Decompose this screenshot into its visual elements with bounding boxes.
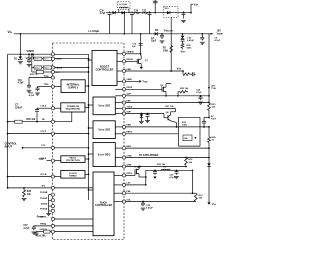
svg-text:R22 10k: R22 10k bbox=[180, 88, 189, 90]
pin NTC (left 72) bbox=[51, 70, 60, 74]
capacitor C36 bbox=[130, 11, 140, 34]
resistor R13b bbox=[208, 103, 217, 118]
diode D8 bbox=[139, 113, 144, 124]
svg-text:SUPPLY: SUPPLY bbox=[68, 85, 78, 89]
pin VMAIN (right) bbox=[122, 51, 133, 56]
wire SUP net bbox=[126, 113, 165, 115]
svg-text:TVDD: TVDD bbox=[142, 81, 148, 83]
transistor Q1 bbox=[126, 55, 149, 65]
svg-text:EN: EN bbox=[42, 185, 45, 187]
svg-text:100k: 100k bbox=[163, 50, 169, 52]
svg-text:C32: C32 bbox=[142, 11, 147, 13]
svg-text:D2: D2 bbox=[155, 28, 159, 32]
svg-text:TVDD: TVDD bbox=[126, 106, 132, 108]
svg-text:PVSSB: PVSSB bbox=[40, 192, 48, 194]
wire boost node riser bbox=[123, 13, 125, 34]
wire buck LX node bbox=[126, 175, 147, 186]
pin FBP2 (right) bbox=[122, 132, 132, 136]
pin DRVL (right) bbox=[122, 173, 133, 177]
svg-text:GRN: GRN bbox=[126, 164, 131, 166]
svg-text:VMAIN: VMAIN bbox=[217, 32, 224, 35]
wire CTL internal bbox=[54, 147, 89, 149]
svg-text:0.47µF: 0.47µF bbox=[187, 39, 195, 42]
resistor R25 bbox=[208, 137, 217, 143]
resistor R30 bbox=[7, 119, 52, 123]
wire ldo2 stubs bbox=[115, 127, 122, 134]
svg-text:VGH: VGH bbox=[177, 69, 182, 71]
transistor Q4 bbox=[164, 111, 171, 121]
capacitor C15 bbox=[25, 53, 32, 66]
pin VINTH (left 58.7) bbox=[51, 57, 62, 61]
svg-text:TO GATE DRIVER: TO GATE DRIVER bbox=[139, 154, 159, 157]
capacitor C9 bbox=[200, 33, 221, 44]
wire clock stub bbox=[85, 173, 89, 175]
wire VIN pin internal bbox=[54, 54, 88, 60]
svg-text:220nF: 220nF bbox=[15, 106, 23, 109]
capacitor C22 top bbox=[153, 0, 158, 13]
svg-text:ILED.A: ILED.A bbox=[40, 228, 48, 231]
wire VGH fb riser bbox=[170, 18, 172, 72]
pin FBN (right) bbox=[122, 125, 131, 129]
capacitor C37 bbox=[23, 225, 51, 234]
label VINFB bbox=[27, 50, 35, 53]
diode D6 bbox=[122, 11, 125, 14]
wire VCCA row bbox=[7, 176, 52, 178]
wire boost out stubs bbox=[117, 54, 123, 82]
svg-text:R19 0: R19 0 bbox=[35, 68, 40, 70]
svg-text:R30 10k: R30 10k bbox=[27, 119, 36, 121]
capacitor C38 bbox=[141, 202, 154, 211]
capacitor C32 bbox=[142, 11, 152, 34]
wire VMAIN riser bbox=[140, 33, 142, 55]
svg-text:GDP: GDP bbox=[126, 94, 131, 96]
svg-text:SEQUENCING: SEQUENCING bbox=[66, 108, 81, 110]
block negative LDO bbox=[93, 121, 115, 139]
pin VCC3 (left 133.6) bbox=[40, 131, 54, 135]
svg-text:C37: C37 bbox=[23, 225, 28, 227]
wire gate driver net bbox=[126, 154, 210, 158]
inductor L1 label bbox=[89, 29, 100, 33]
wire Q4 emitter bbox=[171, 121, 177, 127]
wire ldo1 stubs bbox=[115, 89, 122, 113]
svg-text:C10: C10 bbox=[18, 80, 23, 82]
wire rail mid bbox=[208, 127, 210, 137]
wire PVSS bus bbox=[46, 195, 51, 216]
svg-text:VREFL: VREFL bbox=[40, 216, 48, 218]
label AVDD tap bbox=[208, 115, 217, 121]
pin DRVP (right) bbox=[122, 87, 133, 91]
pin VINLM (left 67.5) bbox=[51, 66, 62, 70]
wire AVDD out row bbox=[166, 93, 210, 97]
svg-text:VCCA: VCCA bbox=[40, 173, 47, 176]
pin ILED.A (left 231.6) bbox=[40, 228, 55, 233]
junction boost node bbox=[123, 12, 125, 35]
capacitor C30 bbox=[100, 11, 112, 34]
block VGOFF regulator bbox=[93, 143, 115, 167]
wire PA to poseq bbox=[54, 112, 71, 122]
wire EN to buck bbox=[54, 187, 93, 189]
wire VOL net bbox=[126, 201, 196, 203]
svg-text:INPUT: INPUT bbox=[5, 146, 13, 149]
wire FBB net bbox=[126, 70, 184, 72]
wire ldo1 stub bbox=[88, 104, 93, 106]
pin FBP (right) bbox=[122, 100, 131, 104]
wire buck stubs bbox=[114, 175, 123, 201]
wire VCC3 row bbox=[7, 133, 52, 135]
svg-text:C36: C36 bbox=[134, 11, 139, 13]
wire FBN net bbox=[126, 126, 210, 128]
wire VDD to supply bbox=[54, 86, 61, 88]
svg-text:4.7µF: 4.7µF bbox=[142, 12, 149, 15]
block power-on sequencing bbox=[61, 103, 85, 112]
capacitor C34 bbox=[29, 87, 40, 97]
pin FBB (right) bbox=[122, 69, 131, 73]
svg-text:HELB: HELB bbox=[40, 158, 46, 160]
svg-text:4.7µF: 4.7µF bbox=[18, 82, 25, 85]
pin SUP (right) bbox=[122, 111, 131, 115]
wire HELB to fault bbox=[54, 160, 60, 162]
pin GRN (right) bbox=[122, 164, 131, 168]
capacitor C35 bbox=[169, 169, 179, 179]
wire nldo stubs bbox=[115, 148, 122, 166]
label VGL arrow bbox=[207, 202, 216, 206]
pin VOL (right) bbox=[122, 199, 131, 203]
zener diode D1 bbox=[14, 53, 23, 64]
label TVDD to HELB bbox=[39, 158, 52, 161]
pin TVDD (right) bbox=[122, 106, 132, 110]
wire GDP link bbox=[126, 95, 167, 97]
svg-text:R21 0: R21 0 bbox=[44, 68, 49, 70]
wire VIN sense drop bbox=[19, 34, 21, 54]
svg-text:4.7µF: 4.7µF bbox=[25, 57, 32, 60]
svg-text:R33: R33 bbox=[27, 191, 32, 193]
resistor R22 bbox=[177, 88, 189, 96]
pin FREQ (left 225.9) bbox=[40, 223, 54, 227]
junction pump mid bbox=[149, 12, 156, 14]
wire NEG net bbox=[126, 147, 210, 149]
capacitor C10 bbox=[18, 78, 32, 93]
wire GRN net bbox=[126, 164, 187, 167]
IC package boundary (dashed) bbox=[53, 43, 125, 240]
wire boost stub bbox=[88, 59, 92, 61]
svg-text:TIMING: TIMING bbox=[69, 175, 77, 177]
pin VCCA (left 176.5) bbox=[40, 173, 54, 178]
wire Q2 drain bbox=[166, 84, 171, 86]
wire Q3 drain riser bbox=[138, 166, 140, 168]
svg-text:R16 0: R16 0 bbox=[35, 59, 40, 61]
pin CTL (left 147.8) bbox=[41, 145, 54, 149]
pin PA (left 121.7) bbox=[42, 118, 55, 123]
pin VINB (right) bbox=[122, 79, 132, 83]
wire CTL row bbox=[22, 147, 52, 150]
node VIN label bbox=[8, 30, 13, 34]
svg-text:FBN: FBN bbox=[126, 125, 131, 127]
wire VIN top rail bbox=[14, 33, 213, 35]
wire VIN sense rail bbox=[8, 53, 52, 55]
label RRSET bbox=[37, 217, 44, 219]
wire right rail top bbox=[208, 34, 210, 103]
pin PBL (right) bbox=[122, 191, 131, 195]
label R27 bbox=[165, 106, 174, 108]
svg-text:VOL: VOL bbox=[126, 199, 131, 201]
svg-text:L1 6.8µH: L1 6.8µH bbox=[89, 29, 100, 33]
resistor R6 bbox=[182, 70, 191, 75]
pin PVSSA (left 210.9) bbox=[40, 208, 55, 213]
label VDD pin wire bbox=[38, 83, 52, 86]
svg-text:L2 10µH: L2 10µH bbox=[119, 4, 127, 6]
svg-text:FREQ: FREQ bbox=[40, 223, 46, 225]
svg-text:DRVB: DRVB bbox=[126, 59, 133, 61]
wire TVDD2 net bbox=[126, 108, 176, 110]
svg-text:TOUT: TOUT bbox=[211, 119, 217, 121]
inductor L3 bbox=[161, 167, 170, 171]
diode D5 bbox=[113, 11, 116, 14]
capacitor C7 bbox=[15, 104, 51, 123]
resistor R12b bbox=[185, 158, 194, 166]
capacitor C16 bbox=[181, 37, 195, 43]
pin DRVB (right) bbox=[122, 59, 133, 63]
capacitor C18 bbox=[191, 72, 196, 76]
inductor L2 (optional, dashed) bbox=[118, 2, 130, 13]
diode D7 bbox=[181, 33, 184, 39]
label TVDD pin wire bbox=[29, 75, 51, 78]
wire ldo2 stub bbox=[88, 127, 93, 129]
pin P (left 54.3) bbox=[51, 53, 54, 56]
svg-text:PVSSP: PVSSP bbox=[40, 198, 48, 200]
wire Q4 collector bbox=[171, 112, 176, 115]
svg-text:4.7µF: 4.7µF bbox=[134, 12, 141, 15]
junction VIN rail bbox=[20, 33, 22, 35]
resistor R24 bbox=[181, 43, 192, 49]
label CONTROL INPUT bbox=[5, 143, 18, 149]
wire VINLM internal bbox=[54, 67, 89, 73]
wire VCCA to clock bbox=[54, 176, 60, 178]
wire Q1 source arrow bbox=[140, 65, 143, 69]
block fault protection bbox=[61, 156, 85, 163]
svg-text:VCC3: VCC3 bbox=[40, 131, 47, 133]
svg-text:4.7µF: 4.7µF bbox=[196, 91, 202, 94]
svg-text:4.7µF: 4.7µF bbox=[214, 39, 220, 42]
label VTAP 25V bbox=[208, 86, 216, 91]
wire fault stub bbox=[85, 158, 89, 160]
svg-text:4.7µF: 4.7µF bbox=[100, 12, 107, 15]
svg-text:CONTROLLER: CONTROLLER bbox=[95, 204, 112, 207]
resistor R18 bbox=[34, 230, 52, 238]
pin EN (left 187.9) bbox=[42, 185, 55, 189]
svg-text:R18 28k: R18 28k bbox=[36, 235, 46, 238]
svg-text:NEG: NEG bbox=[126, 146, 131, 148]
svg-text:0.47µF: 0.47µF bbox=[146, 206, 154, 209]
svg-text:VMAIN: VMAIN bbox=[126, 51, 133, 54]
svg-text:PBL: PBL bbox=[126, 191, 131, 193]
svg-text:VGH: VGH bbox=[181, 50, 186, 53]
node VMAIN output bbox=[210, 30, 223, 36]
svg-text:FBB: FBB bbox=[126, 69, 131, 71]
svg-text:22µF: 22µF bbox=[151, 41, 157, 43]
capacitor C24 bbox=[196, 88, 203, 104]
svg-text:FBP: FBP bbox=[126, 100, 131, 102]
svg-text:FBP2: FBP2 bbox=[126, 132, 132, 134]
capacitor C4 bbox=[202, 118, 209, 128]
wire VINTH row bbox=[32, 53, 34, 58]
label R12 bbox=[182, 122, 188, 127]
resistor R17 bbox=[42, 57, 52, 61]
svg-text:DRVP: DRVP bbox=[126, 87, 133, 89]
svg-text:100k: 100k bbox=[182, 124, 188, 126]
wire VINLM row bbox=[31, 53, 33, 67]
svg-text:PVSSA: PVSSA bbox=[40, 208, 48, 211]
wire internal bus bbox=[88, 60, 90, 200]
svg-text:500k: 500k bbox=[187, 47, 193, 49]
svg-text:AGND: AGND bbox=[41, 203, 48, 206]
svg-text:4.7µF: 4.7µF bbox=[29, 94, 35, 97]
capacitor C13 on riser bbox=[132, 44, 142, 49]
block buck controller U2 bbox=[93, 172, 114, 236]
svg-text:VINFB: VINFB bbox=[27, 50, 35, 53]
wire PBL net bbox=[126, 170, 194, 194]
wire supply stub bbox=[85, 85, 89, 87]
wire poseq stub bbox=[85, 107, 89, 109]
wire rail low bbox=[208, 143, 210, 164]
svg-text:4.7µF: 4.7µF bbox=[169, 176, 175, 179]
capacitor C2 bbox=[151, 33, 164, 43]
wire COL2 to poseq bbox=[54, 107, 60, 109]
wire left bias rail bbox=[7, 54, 9, 188]
pin P (left 77.5) bbox=[51, 76, 54, 79]
wire VMAIN pin bbox=[126, 53, 142, 55]
pin PVSSP (left 200.3) bbox=[40, 198, 54, 202]
svg-text:CHW: CHW bbox=[126, 155, 132, 157]
wire VCC3 internal bbox=[54, 133, 89, 135]
svg-text:VDD: VDD bbox=[44, 83, 49, 86]
wire EN row bbox=[7, 187, 52, 189]
diode D2 boost rectifier bbox=[155, 28, 159, 36]
svg-text:CTL: CTL bbox=[41, 145, 46, 147]
resistor R5 bbox=[163, 46, 173, 53]
wire nldo stub bbox=[88, 153, 93, 155]
pin P (left 86.6) bbox=[51, 85, 54, 88]
resistor R13 bbox=[193, 193, 204, 201]
label VGH2 bbox=[181, 48, 186, 53]
capacitor C39 bbox=[145, 113, 150, 123]
svg-text:PROTECTION: PROTECTION bbox=[66, 160, 80, 162]
wire buck output row bbox=[145, 169, 193, 177]
wire FBP2 net bbox=[126, 133, 179, 135]
block internal supply bbox=[61, 80, 85, 93]
svg-text:SUP: SUP bbox=[126, 111, 131, 113]
pin LX2 (right) bbox=[122, 183, 131, 187]
wire VREF to buck bbox=[54, 219, 93, 226]
diode D9 bbox=[207, 163, 210, 202]
wire VGH riser bbox=[190, 4, 193, 13]
wire FBP net bbox=[126, 102, 210, 104]
pin CHW (right) bbox=[122, 155, 132, 159]
label VGH fb bbox=[177, 69, 182, 71]
pin HELB (left 160.6) bbox=[40, 158, 54, 162]
svg-text:DRVL: DRVL bbox=[126, 173, 133, 175]
svg-text:CONTROLLER: CONTROLLER bbox=[96, 67, 114, 71]
resistor R14 bbox=[183, 135, 196, 141]
wire charge-pump rail bbox=[106, 12, 191, 14]
svg-text:C30: C30 bbox=[100, 11, 105, 13]
resistor mesh box bbox=[178, 117, 200, 146]
pin PVSSB (left 194.6) bbox=[40, 192, 55, 196]
resistor R16 bbox=[33, 57, 42, 61]
block boost controller U1 bbox=[92, 50, 117, 85]
capacitor C33 bbox=[181, 11, 186, 22]
thermistor row bbox=[30, 68, 52, 76]
block clock generator bbox=[61, 170, 85, 178]
svg-text:4.7µF: 4.7µF bbox=[23, 227, 30, 230]
pin NEG (right) bbox=[122, 146, 131, 150]
diode D10 (optional, dashed box) bbox=[164, 6, 178, 17]
transistor Q3 bbox=[126, 166, 141, 175]
svg-text:R27 10k: R27 10k bbox=[165, 106, 174, 108]
svg-text:VGH: VGH bbox=[194, 4, 199, 7]
resistor R19 bbox=[32, 66, 42, 70]
svg-text:TVIA: TVIA bbox=[211, 87, 216, 90]
resistor R21 bbox=[42, 66, 52, 70]
svg-text:COL2: COL2 bbox=[40, 106, 47, 108]
pin COL2 (left 108.2) bbox=[40, 106, 54, 110]
transistor Q2 bbox=[126, 85, 167, 93]
pin VREFL (left 219) bbox=[40, 216, 55, 220]
wire VINB arrow bbox=[126, 80, 149, 83]
node VGH label bbox=[194, 4, 199, 7]
wire ILEDA to buck bbox=[54, 231, 93, 233]
wire VINTH internal bbox=[54, 58, 89, 60]
wire TVDD2 drop bbox=[175, 109, 177, 112]
svg-text:R26 TH: R26 TH bbox=[30, 74, 38, 76]
svg-text:PA: PA bbox=[42, 118, 45, 121]
pin GDP (right) bbox=[122, 94, 131, 98]
wire buck stub bbox=[88, 189, 93, 191]
capacitor C26 bbox=[153, 169, 157, 178]
svg-text:VINB: VINB bbox=[126, 79, 132, 81]
label REGOUT bbox=[164, 29, 174, 33]
pin AGND (left 206.1) bbox=[41, 203, 55, 208]
block positive LDO bbox=[93, 97, 115, 115]
resistor R33 bbox=[22, 187, 32, 201]
svg-text:R17 0: R17 0 bbox=[44, 59, 49, 61]
